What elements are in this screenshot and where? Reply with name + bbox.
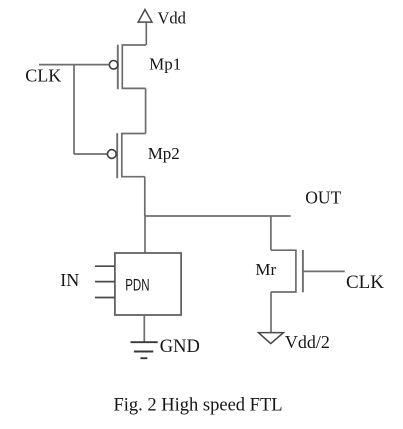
svg-text:Mp1: Mp1 (149, 54, 181, 73)
svg-text:CLK: CLK (25, 65, 61, 85)
wire OUT node to Mr drain (270, 216, 272, 250)
wire IN stub 3 (95, 297, 115, 299)
wire IN stub 1 (95, 265, 115, 267)
wire OUT node to PDN (144, 216, 146, 253)
svg-text:Mp2: Mp2 (148, 144, 180, 163)
transistor Mp1 (109, 45, 146, 89)
block PDN (115, 253, 181, 315)
transistor Mp2 (107, 133, 145, 178)
wire Mr source to Vdd/2 (270, 292, 272, 334)
power symbol Vdd (138, 10, 152, 23)
svg-text:OUT: OUT (305, 187, 341, 207)
transistor Mr (271, 250, 303, 292)
wire CLK branch vertical (73, 65, 75, 154)
svg-text:Mr: Mr (255, 260, 276, 279)
wire IN stub 2 (95, 281, 115, 283)
svg-text:Fig. 2 High speed FTL: Fig. 2 High speed FTL (114, 396, 283, 416)
svg-text:Vdd: Vdd (158, 8, 187, 27)
wire Mp2 source to OUT node (144, 177, 146, 216)
wire PDN to ground (143, 315, 145, 342)
wire OUT horizontal (145, 215, 291, 217)
wire Vdd drop to Mp1 drain (145, 23, 147, 45)
wire Mr gate to CLK (303, 270, 345, 272)
svg-text:IN: IN (60, 270, 79, 290)
svg-text:CLK: CLK (346, 272, 384, 293)
wire Mp1 source to Mp2 drain (145, 88, 147, 133)
svg-text:PDN: PDN (125, 276, 149, 295)
svg-text:Vdd/2: Vdd/2 (285, 332, 330, 352)
wire CLK branch to Mp2 gate (74, 153, 107, 155)
svg-text:GND: GND (160, 337, 200, 357)
power symbol Vdd/2 (258, 333, 283, 344)
ground (131, 342, 158, 358)
wire CLK to Mp1 gate (39, 64, 109, 66)
